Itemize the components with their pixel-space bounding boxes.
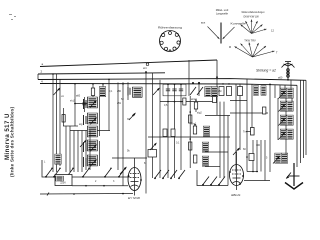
wire drop x63.5 <box>63 108 65 126</box>
capacitor C9b bars <box>84 157 87 167</box>
socket pin 4 <box>164 47 167 50</box>
svg-text:12: 12 <box>271 29 274 33</box>
component box near V2 <box>249 154 254 161</box>
unit4 trimmer arrow <box>279 132 286 140</box>
capacitor group mid: loop <box>163 84 186 96</box>
capacitor C11 <box>171 129 175 137</box>
junction L4 drop dots <box>74 79 124 85</box>
svg-text:TKW TRV: TKW TRV <box>244 39 256 43</box>
tube V1 pin junctions <box>128 175 130 177</box>
output bar <box>289 175 300 177</box>
wire y131.5 <box>246 131 251 133</box>
socket pin 1 <box>175 33 178 36</box>
output chevron <box>285 183 303 190</box>
mid horizontal y115.5 <box>205 115 230 117</box>
svg-text:a50: a50 <box>117 90 122 93</box>
svg-text:0,5: 0,5 <box>164 104 168 107</box>
chain wire x190 <box>189 96 191 168</box>
svg-text:M: M <box>229 45 231 49</box>
mid horizontal y130.5 <box>70 130 110 132</box>
coil L3 striped box <box>132 87 142 97</box>
coil L6 striped <box>203 126 209 136</box>
trimmer arrow left-mid <box>80 140 87 148</box>
output arrow symbol stem <box>293 163 295 186</box>
wire drop x60 <box>59 80 61 167</box>
svg-text:Wellenschalterstellungen: Wellenschalterstellungen <box>242 11 266 14</box>
wire stub y126 <box>63 125 78 127</box>
wire drop x152.5 <box>152 73 154 178</box>
wire drop x174.5 <box>174 85 176 179</box>
tube V2 grid dashes <box>232 170 241 183</box>
contacts group C mid <box>155 170 161 178</box>
wire drop x181 <box>180 85 182 171</box>
svg-text:a51: a51 <box>117 102 122 105</box>
svg-text:L: L <box>44 161 46 164</box>
wire drop x270 <box>269 84 271 172</box>
junction bottom line1 <box>85 185 87 187</box>
capacitor C7c bars <box>84 115 87 125</box>
capacitor C2 <box>128 87 130 96</box>
svg-text:5: 5 <box>266 157 268 160</box>
junction x270 <box>269 84 271 86</box>
unit1 trimmer arrow <box>279 91 286 99</box>
resistor R4 <box>253 86 258 96</box>
resistor R1 <box>91 88 94 96</box>
svg-text:Röhrenfassung: Röhrenfassung <box>158 26 183 30</box>
trimmer arrow SK <box>150 143 157 151</box>
resistor chain R10 <box>189 115 192 123</box>
trimmer C1 arrow <box>54 88 61 96</box>
capacitor C6 <box>179 89 183 91</box>
IFT T1 trimmer arrow <box>90 100 97 108</box>
coil L8 striped <box>202 156 208 166</box>
capacitor C4 <box>166 89 170 91</box>
wire drop x240 <box>239 84 241 150</box>
IFT T1 core line <box>99 97 101 136</box>
unit3 winding b <box>287 115 293 125</box>
junction a4 <box>145 71 147 73</box>
svg-text:Tm: Tm <box>243 131 247 134</box>
svg-text:OKW KW LW: OKW KW LW <box>243 15 259 19</box>
IFT T1 winding B <box>87 113 97 124</box>
svg-text:60: 60 <box>243 148 246 151</box>
wire drop x56.5 <box>56 74 58 172</box>
wire drop x146 long <box>145 72 147 194</box>
capacitor C5 <box>172 89 176 91</box>
switch bus bottom <box>42 160 130 177</box>
junction near V2 <box>246 156 248 158</box>
wire L1 drop x217 <box>216 60 218 115</box>
switch contact SW1 <box>190 87 196 95</box>
bus wire L3 <box>38 79 306 81</box>
wire drop x53 <box>52 74 54 172</box>
svg-text:a60: a60 <box>76 95 81 98</box>
junction x193 <box>192 82 194 84</box>
junction v2 row <box>252 171 254 173</box>
coil L7 striped <box>202 142 208 152</box>
IFT T2 trimmer arrow A <box>90 144 97 152</box>
switch contact M3 <box>219 177 225 185</box>
right feeder wire bundle <box>297 80 306 167</box>
svg-text:a60: a60 <box>278 76 283 80</box>
junction m2 <box>195 99 197 101</box>
wire drop x109 <box>108 79 110 130</box>
socket pin 5 <box>160 41 163 44</box>
coil L9 box <box>238 87 243 96</box>
IF transformer T1 cap lead <box>84 97 86 112</box>
svg-text:Kurzwelle: Kurzwelle <box>231 22 247 26</box>
wire drop x123 <box>122 82 124 186</box>
IFT T2 trimmer arrow B <box>90 159 97 167</box>
svg-text:e/u2: e/u2 <box>70 100 75 103</box>
IFT T1 winding C <box>87 126 97 137</box>
tube V2 axis wire <box>236 152 238 190</box>
IFT T1 winding A <box>87 97 97 108</box>
wire drop x86 mid <box>85 131 87 171</box>
wire drop x93 <box>92 84 94 97</box>
capacitor C9a bars <box>84 142 87 152</box>
svg-text:4: 4 <box>41 80 43 84</box>
contact C2 <box>163 170 169 178</box>
socket pin 2 <box>177 41 180 44</box>
junction chain2 <box>189 138 191 140</box>
corner smudge <box>9 14 16 20</box>
wire drop x168 <box>167 85 169 179</box>
unit2 arrow <box>280 101 286 111</box>
junction m1 <box>194 124 196 126</box>
tick mark y193 <box>47 193 49 196</box>
svg-text:aus: aus <box>201 22 206 25</box>
tube V2 envelope <box>230 165 244 186</box>
bus wire L4 <box>40 84 297 86</box>
svg-text:3: 3 <box>113 180 115 183</box>
contact top dots <box>51 168 126 170</box>
cluster a/m2 lead <box>195 100 197 112</box>
resistor R13 <box>62 115 65 123</box>
wire drop x118 <box>117 83 119 171</box>
svg-text:2M: 2M <box>218 90 221 93</box>
junction bottom line3 <box>73 193 75 195</box>
junction chain1 <box>189 111 191 113</box>
svg-text:(linke Seite des Schaltbildes): (linke Seite des Schaltbildes) <box>9 106 14 177</box>
coil L2 striped <box>99 87 105 97</box>
IFT T1 trimmer arrow B <box>90 117 97 125</box>
electrolytic C8 <box>251 128 255 136</box>
unit5 winding b <box>281 153 287 163</box>
tube socket circle <box>160 31 181 52</box>
wire verticals mid-right bundle <box>205 102 228 186</box>
svg-text:50: 50 <box>121 98 124 101</box>
svg-text:220V: 220V <box>60 182 66 185</box>
mains box row1 <box>56 176 64 181</box>
svg-text:a/g2: a/g2 <box>197 112 202 115</box>
svg-text:0,1: 0,1 <box>109 90 113 93</box>
mains box <box>55 175 72 186</box>
varistor arrow mid <box>129 113 136 121</box>
socket key notch <box>169 50 172 52</box>
tube V2 pin junctions <box>229 171 231 173</box>
resistor R5 <box>261 86 266 96</box>
S3 rays <box>235 43 275 58</box>
unit2 winding b <box>287 101 293 111</box>
wire drop x199 <box>198 83 200 96</box>
switch contact K5 <box>105 169 111 177</box>
unit2 trimmer arrow <box>279 104 286 112</box>
bottom mid L wire <box>197 170 228 186</box>
svg-text:Stellung = a2: Stellung = a2 <box>256 69 276 73</box>
junction row x223 <box>222 83 224 85</box>
bus wire L1 <box>40 60 217 67</box>
junction d133 <box>132 115 134 117</box>
capacitor C7 <box>82 103 86 105</box>
svg-text:EY NOR: EY NOR <box>128 196 141 200</box>
bottom wire y193.5 <box>40 193 133 196</box>
svg-text:EBL21: EBL21 <box>231 193 241 197</box>
junction x199 <box>198 82 200 84</box>
capacitor C7b bars <box>84 99 87 109</box>
tube V1 grid dashes <box>130 174 139 187</box>
IFT T2 core <box>99 141 101 166</box>
tube V1 axis wire <box>134 158 136 196</box>
switch contact K2 <box>54 169 60 177</box>
wire drop x75 <box>74 84 76 126</box>
wire verticals x66-82 <box>66 126 82 172</box>
mid horizontal y113 <box>230 112 268 114</box>
capacitor C12 <box>213 97 217 103</box>
resistor R7 <box>193 126 196 134</box>
right tuned-circuit column unit1 arrow <box>280 88 286 98</box>
wire drop x160 <box>159 80 161 178</box>
wire drop x236 <box>235 84 237 172</box>
S1 pointer line <box>220 23 222 44</box>
resistor R2 <box>205 87 211 97</box>
unit1 winding b <box>287 88 293 98</box>
switch contact SW2 <box>197 87 203 95</box>
wire drop x90 mid <box>89 131 91 171</box>
S2 ray arrowheads <box>241 25 243 27</box>
bus wire L2 <box>38 73 165 74</box>
unit5 arrow <box>275 153 281 163</box>
switch contact K6 <box>119 169 125 177</box>
svg-text:a/4: a/4 <box>143 67 147 70</box>
contact C4 <box>179 170 185 178</box>
wire L2-L3 left joint <box>37 74 39 80</box>
unit5 trimmer arrow <box>273 156 280 164</box>
wire drop x247 <box>246 79 248 172</box>
switch contact K1 <box>46 169 52 177</box>
svg-text:Langwelle: Langwelle <box>216 12 229 16</box>
socket pin 3 <box>173 47 176 50</box>
S1 right ray <box>223 27 235 39</box>
junction x53 <box>52 73 54 75</box>
svg-text:2: 2 <box>95 180 97 183</box>
trimmer arrow near V1 <box>120 167 127 175</box>
tube V1 envelope <box>128 168 141 191</box>
junction bottom line2 <box>103 185 105 187</box>
wires above tube V2 <box>244 140 270 181</box>
resistor R3 <box>211 87 217 97</box>
resistor R6 <box>194 102 197 109</box>
column wires right <box>275 80 292 154</box>
junction rail dots <box>167 101 182 103</box>
wire pair x128 <box>127 82 129 100</box>
switch contact M1 <box>203 177 209 185</box>
S2 rays <box>241 20 267 34</box>
svg-text:a: a <box>42 62 44 66</box>
wire drop x189 <box>188 60 190 96</box>
mid horizontal y158 <box>112 157 147 159</box>
trimmer C3 arrow <box>153 88 160 96</box>
junction L1/L2b <box>216 76 218 78</box>
junction x75 <box>74 103 76 105</box>
svg-text:u1: u1 <box>61 95 64 98</box>
S1 left ray <box>208 27 220 39</box>
bottom wire y185.5 <box>72 185 128 187</box>
junction bottom line4 <box>122 193 124 195</box>
contact C3 <box>171 170 177 178</box>
unit4 winding b <box>287 129 293 139</box>
mid horizontal y137 <box>148 136 230 138</box>
svg-text:300: 300 <box>256 144 261 147</box>
unit4 arrow <box>280 129 286 139</box>
resistor chain R11 <box>189 142 192 150</box>
switch contact K4 <box>83 169 89 177</box>
svg-text:T: T <box>276 51 278 55</box>
junction antenna base <box>287 79 289 81</box>
svg-text:5k: 5k <box>127 150 130 153</box>
mid horizontal y100.5 <box>230 100 247 102</box>
S3 ray arrowheads <box>235 47 237 49</box>
antenna symbol <box>282 62 295 80</box>
switch contact M2 <box>211 177 217 185</box>
IFT T2 winding B <box>87 155 97 166</box>
socket pin 6 <box>162 33 165 36</box>
resistor chain R12 <box>194 155 197 163</box>
resistor R14 <box>183 98 186 105</box>
unit3 arrow <box>280 115 286 125</box>
svg-text:2: 2 <box>41 70 43 74</box>
svg-text:0,1: 0,1 <box>176 142 180 145</box>
svg-text:Mittel- und: Mittel- und <box>216 8 229 12</box>
mid rail y101.6 <box>160 101 213 103</box>
socket pin 7 <box>169 32 172 35</box>
mid horizontal y103.5 <box>75 103 93 105</box>
resistor R8 <box>263 107 266 114</box>
IFT T2 winding A <box>87 140 97 151</box>
capacitor C10 <box>163 129 167 137</box>
component box SK <box>148 150 157 158</box>
unit3 trimmer arrow <box>279 118 286 126</box>
terminal circle a4 <box>146 63 149 66</box>
output small arrow <box>287 173 292 179</box>
coil L4 box <box>219 87 224 96</box>
wire drop x252 <box>251 84 253 131</box>
junction row mid <box>167 84 169 86</box>
coil L5 box <box>227 87 232 96</box>
switch contact K3 <box>67 169 73 177</box>
wire drop x103 <box>102 84 104 97</box>
coil L1a striped <box>55 154 62 165</box>
trimmer arrow near V2 <box>233 148 240 156</box>
svg-text:a/g: a/g <box>79 123 83 126</box>
